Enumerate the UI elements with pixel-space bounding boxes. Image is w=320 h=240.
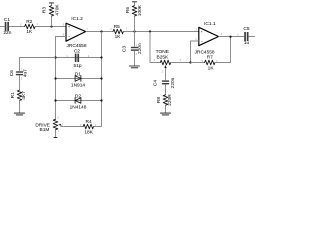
svg-text:220R: 220R	[167, 94, 173, 106]
svg-text:1N4148: 1N4148	[70, 105, 87, 111]
wire C3 upper lead	[134, 32, 136, 47]
resistor R2	[25, 19, 39, 35]
wire R2 to opamp non-inverting input	[35, 26, 66, 28]
node D1 right	[100, 77, 102, 79]
svg-text:IC1.1: IC1.1	[204, 21, 216, 27]
ground under C3	[129, 66, 139, 68]
node R6/C3 column	[133, 30, 135, 32]
wire riser to tone pot	[150, 32, 160, 63]
svg-text:IC1.2: IC1.2	[71, 16, 83, 22]
svg-text:C1: C1	[4, 17, 10, 23]
wire IC1.1 inverting input riser	[191, 41, 199, 63]
svg-text:−: −	[68, 35, 70, 39]
wire IC1.2 output	[86, 31, 113, 33]
diode D2	[70, 93, 87, 110]
svg-text:D2: D2	[75, 93, 81, 99]
svg-text:100K: 100K	[137, 4, 143, 16]
wire R3 top stub	[51, 3, 53, 6]
ground under R1	[14, 113, 24, 115]
node tone pot riser	[149, 30, 151, 32]
svg-text:R6: R6	[125, 7, 131, 13]
svg-text:22n: 22n	[3, 30, 11, 36]
svg-text:B25K: B25K	[157, 55, 170, 61]
svg-text:470K: 470K	[54, 4, 60, 16]
wire R5 to IC1.1 input	[123, 31, 198, 33]
node junction R3/input	[50, 25, 52, 27]
node feedback left	[189, 61, 191, 63]
op-amp IC1.2	[63, 16, 89, 49]
ground under R8	[160, 113, 170, 115]
svg-text:−: −	[201, 40, 203, 44]
op-amp IC1.1	[195, 21, 223, 55]
wire IC1.2 inverting input to left rail	[56, 37, 67, 58]
svg-text:18K: 18K	[84, 130, 93, 136]
svg-text:4u7: 4u7	[23, 69, 29, 77]
svg-text:D1: D1	[75, 71, 81, 77]
capacitor C1	[3, 17, 11, 36]
wire D1 row	[56, 78, 102, 80]
wire D2 row	[56, 100, 102, 102]
svg-text:1K: 1K	[26, 29, 33, 35]
node D2 left	[54, 99, 56, 101]
wire R3 riser	[51, 16, 53, 27]
svg-text:+: +	[201, 30, 203, 34]
wire R8 to ground	[165, 105, 167, 113]
resistor R3	[42, 4, 61, 16]
capacitor C3	[121, 43, 142, 56]
svg-text:1N914: 1N914	[71, 82, 85, 88]
node output stage1	[100, 30, 102, 32]
svg-text:C5: C5	[243, 26, 249, 32]
wire C6 to R1	[19, 76, 21, 91]
svg-text:R2: R2	[26, 19, 32, 25]
svg-text:R8: R8	[156, 97, 162, 103]
wire C5 to right edge	[248, 36, 255, 38]
wire R1 to ground	[19, 101, 21, 113]
svg-text:4K7: 4K7	[21, 91, 27, 100]
svg-text:C2: C2	[74, 49, 80, 55]
wire R6 top stub	[134, 2, 136, 6]
wire to R7	[191, 62, 205, 64]
svg-text:R4: R4	[86, 119, 92, 125]
svg-text:JRC4558: JRC4558	[67, 43, 87, 49]
svg-text:TONE: TONE	[156, 49, 169, 55]
wire bottom row wiper to R4	[63, 126, 83, 128]
wire R4 to right rail corner	[94, 126, 102, 128]
svg-text:R7: R7	[207, 54, 213, 60]
resistor R8	[156, 94, 173, 106]
svg-text:1u: 1u	[244, 40, 250, 46]
wire C4 to R8	[165, 85, 167, 95]
svg-text:B1M: B1M	[40, 127, 50, 133]
svg-text:220n: 220n	[137, 43, 143, 54]
wire C3 to ground	[134, 51, 136, 66]
svg-text:C6: C6	[9, 70, 15, 76]
potentiometer DRIVE	[35, 117, 63, 138]
capacitor C6	[9, 68, 29, 80]
potentiometer TONE	[154, 49, 182, 80]
node C2 right	[100, 56, 102, 58]
node output	[229, 36, 231, 38]
capacitor C2	[67, 49, 90, 70]
wire R6 lower lead	[134, 16, 136, 32]
wire C6 branch top	[20, 58, 56, 72]
resistor R5	[113, 24, 123, 40]
wire IC1.1 output	[219, 36, 245, 38]
svg-text:R1: R1	[10, 92, 16, 98]
wire C2 row	[56, 57, 102, 59]
capacitor C4	[153, 77, 176, 88]
resistor R6	[125, 4, 143, 16]
wire left rail down	[55, 58, 57, 120]
wire right rail down	[101, 32, 103, 127]
svg-text:C3: C3	[121, 46, 127, 52]
svg-text:+: +	[68, 25, 70, 29]
node D1 left	[54, 77, 56, 79]
wire C1 to R2	[9, 26, 25, 28]
resistor R4	[80, 119, 97, 136]
node D2 right	[100, 99, 102, 101]
resistor R7	[202, 54, 219, 71]
svg-text:51p: 51p	[73, 63, 81, 69]
svg-text:1K: 1K	[208, 65, 215, 71]
wire R7 to output rail	[215, 37, 231, 63]
svg-text:C4: C4	[153, 80, 159, 86]
node C2 left	[54, 56, 56, 58]
svg-text:220n: 220n	[170, 77, 176, 88]
diode D1	[71, 71, 85, 88]
capacitor C5	[237, 26, 250, 46]
svg-text:1K: 1K	[115, 34, 122, 40]
svg-text:R3: R3	[42, 7, 48, 13]
svg-text:R5: R5	[114, 24, 120, 30]
wire input from left edge to C1	[0, 26, 5, 28]
resistor R1	[10, 90, 27, 100]
wire tone pot right lead	[171, 62, 191, 64]
